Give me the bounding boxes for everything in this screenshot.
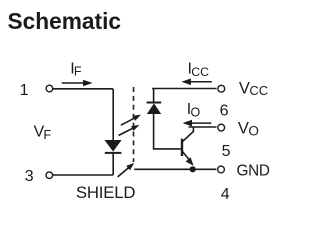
photodiode D2 — [147, 103, 162, 149]
VO terminal circle — [218, 124, 225, 131]
arrow ICC — [181, 79, 211, 86]
arrow IF — [62, 80, 93, 87]
transistor Q1 base bar — [181, 139, 183, 156]
GND rail wire — [134, 168, 216, 170]
pin 3 terminal circle — [46, 172, 53, 179]
svg-text:5: 5 — [222, 143, 231, 160]
light arrow upper — [121, 115, 141, 126]
svg-text:6: 6 — [220, 103, 229, 120]
GND terminal circle — [218, 166, 225, 173]
transistor Q1 emitter with arrow — [183, 152, 194, 166]
svg-text:Schematic: Schematic — [8, 8, 122, 34]
svg-text:4: 4 — [221, 186, 230, 203]
wire LED cathode vertical — [112, 154, 114, 175]
svg-text:GND: GND — [237, 162, 270, 179]
shield dashed line — [133, 87, 135, 162]
pin 1 terminal circle — [46, 85, 53, 92]
wire collector to VO — [189, 126, 217, 128]
LED D1 (emitter diode) — [105, 140, 122, 153]
svg-text:VF: VF — [34, 124, 52, 142]
svg-text:SHIELD: SHIELD — [76, 183, 136, 202]
junction dot emitter-GND — [190, 166, 196, 172]
svg-text:3: 3 — [25, 168, 34, 185]
transistor Q1 collector — [183, 127, 194, 142]
shield pointer arrow — [118, 163, 135, 177]
svg-text:VCC: VCC — [239, 79, 268, 98]
svg-text:1: 1 — [20, 82, 29, 99]
wire LED anode vertical — [112, 89, 114, 141]
arrow IO — [183, 120, 212, 127]
light arrow lower — [119, 125, 140, 135]
wire pin1 to LED anode (top horizontal) — [53, 88, 113, 90]
VCC terminal circle — [218, 85, 225, 92]
wire photodiode anode to base — [153, 148, 182, 150]
VCC rail wire — [152, 89, 217, 103]
wire pin3 to LED cathode (bottom horizontal) — [53, 174, 113, 176]
